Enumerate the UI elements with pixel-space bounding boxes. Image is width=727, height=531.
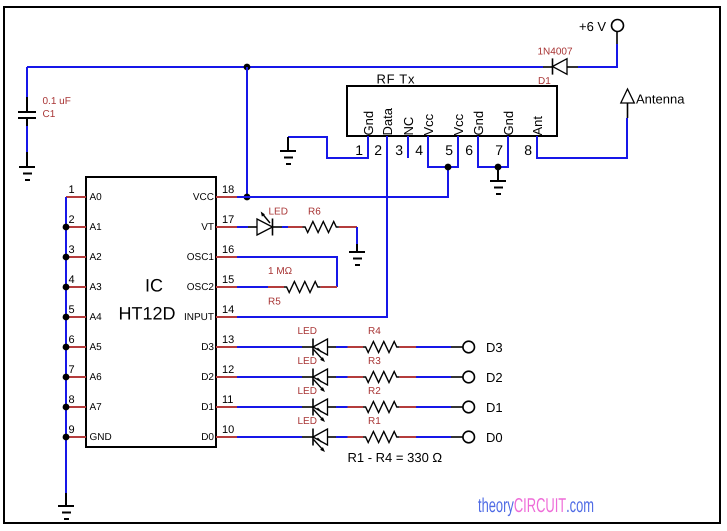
capacitor C1 <box>18 97 36 126</box>
terminal D1 <box>451 401 475 413</box>
svg-text:+6 V: +6 V <box>579 19 606 34</box>
svg-text:A7: A7 <box>90 402 103 413</box>
svg-text:LED: LED <box>298 416 317 427</box>
wire RF pins 4-5 Vcc link <box>428 136 458 167</box>
svg-text:A4: A4 <box>90 312 103 323</box>
wire LED to R3 <box>336 376 348 378</box>
logo theoryCIRCUIT.com <box>478 495 594 517</box>
wire OSC2 to R5 <box>237 286 268 288</box>
lead R6 left <box>288 226 303 228</box>
svg-text:GND: GND <box>90 432 112 443</box>
svg-text:LED: LED <box>298 326 317 337</box>
svg-text:INPUT: INPUT <box>184 312 214 323</box>
svg-text:A2: A2 <box>90 252 103 263</box>
wire R4 to terminal <box>416 346 451 348</box>
IC pin 17 stub <box>216 226 237 228</box>
svg-text:1: 1 <box>355 142 363 158</box>
svg-text:5: 5 <box>69 304 75 316</box>
wire address bus A0-GND <box>65 197 67 493</box>
wire D0 to LED <box>237 436 302 438</box>
lead R2 left <box>348 406 364 408</box>
resistor R5 <box>284 282 320 293</box>
svg-text:C1: C1 <box>43 109 56 120</box>
resistor R6 <box>303 222 339 233</box>
svg-text:OSC2: OSC2 <box>187 282 215 293</box>
svg-text:A0: A0 <box>90 192 103 203</box>
svg-text:14: 14 <box>222 304 234 316</box>
svg-text:Data: Data <box>380 107 395 135</box>
wire VT to LED <box>237 226 248 228</box>
svg-text:D1: D1 <box>201 402 214 413</box>
terminal D3 <box>451 341 475 353</box>
lead R5 left <box>268 286 284 288</box>
antenna <box>621 89 635 118</box>
LED on VT <box>248 212 282 236</box>
svg-text:13: 13 <box>222 334 234 346</box>
wire RF pin8 Ant to antenna <box>537 118 627 158</box>
ground below address bus <box>58 493 74 519</box>
lead R4 right <box>400 346 417 348</box>
junction dot bus pin 3 <box>63 254 70 261</box>
svg-text:RF Tx: RF Tx <box>377 72 416 87</box>
svg-text:5: 5 <box>445 142 453 158</box>
svg-text:10: 10 <box>222 424 234 436</box>
IC pin 13 stub <box>216 346 237 348</box>
svg-text:6: 6 <box>465 142 473 158</box>
svg-text:4: 4 <box>415 142 423 158</box>
svg-text:2: 2 <box>69 214 75 226</box>
LED on D3 <box>302 339 336 363</box>
svg-text:A3: A3 <box>90 282 103 293</box>
IC pin 3 stub <box>66 256 86 258</box>
RF Tx module U2 <box>347 86 557 136</box>
IC pin 15 stub <box>216 286 237 288</box>
wire C1 bottom lead <box>26 126 28 152</box>
junction dot bus pin 2 <box>63 224 70 231</box>
svg-text:1 MΩ: 1 MΩ <box>268 266 293 277</box>
IC pin 9 stub <box>66 436 86 438</box>
wire VCC top rail <box>27 66 543 68</box>
svg-text:18: 18 <box>222 184 234 196</box>
svg-text:theory: theory <box>478 495 514 517</box>
svg-text:R6: R6 <box>308 207 321 218</box>
junction dot Vcc link <box>445 164 452 171</box>
lead R1 right <box>400 436 417 438</box>
wire diode to +6V <box>578 44 617 67</box>
svg-text:A5: A5 <box>90 342 103 353</box>
wire OSC1 loop <box>237 257 337 287</box>
svg-text:OSC1: OSC1 <box>187 252 215 263</box>
svg-text:VCC: VCC <box>193 192 214 203</box>
svg-text:D3: D3 <box>201 342 214 353</box>
ground below RF pins 6-7 <box>490 167 506 194</box>
terminal +6V <box>612 20 624 45</box>
wire LED to R2 <box>336 406 348 408</box>
wire pin18 VCC horizontal <box>237 196 448 198</box>
svg-text:Antenna: Antenna <box>636 92 685 107</box>
svg-text:Vcc: Vcc <box>421 113 436 135</box>
svg-text:4: 4 <box>69 274 75 286</box>
wire RF pin2 Data to INPUT <box>237 136 387 317</box>
resistor R2 <box>363 402 399 413</box>
LED on D1 <box>302 399 336 423</box>
wire R3 to terminal <box>416 376 451 378</box>
lead R3 right <box>400 376 417 378</box>
IC pin 10 stub <box>216 436 237 438</box>
LED on D2 <box>302 369 336 393</box>
IC pin 11 stub <box>216 406 237 408</box>
ground left of RF Tx <box>280 137 296 164</box>
junction dot bus pin 7 <box>63 374 70 381</box>
junction dot at pin 18 row <box>244 194 251 201</box>
svg-text:7: 7 <box>495 142 503 158</box>
LED on D0 <box>302 429 336 453</box>
wire D3 to LED <box>237 346 302 348</box>
junction dot bus pin 9 <box>63 434 70 441</box>
svg-text:.com: .com <box>566 495 594 517</box>
IC pin 18 stub <box>216 196 237 198</box>
svg-text:Vcc: Vcc <box>451 113 466 135</box>
svg-text:Gnd: Gnd <box>501 111 516 136</box>
IC pin 6 stub <box>66 346 86 348</box>
junction dot bus pin 5 <box>63 314 70 321</box>
svg-text:R4: R4 <box>368 326 381 337</box>
IC pin 8 stub <box>66 406 86 408</box>
svg-text:11: 11 <box>222 394 233 406</box>
svg-text:17: 17 <box>222 214 234 226</box>
junction dot bus pin 8 <box>63 404 70 411</box>
wire RF pins 6-7 Gnd link <box>478 136 508 167</box>
wire RF pin3 NC stub <box>407 136 409 158</box>
svg-text:9: 9 <box>69 424 75 436</box>
wire R2 to terminal <box>416 406 451 408</box>
svg-text:LED: LED <box>298 386 317 397</box>
svg-text:D2: D2 <box>486 370 503 385</box>
svg-text:D0: D0 <box>486 430 503 445</box>
svg-text:2: 2 <box>374 142 382 158</box>
wire RF pin1 Gnd stub <box>288 136 368 158</box>
terminal D2 <box>451 371 475 383</box>
wire D1 to LED <box>237 406 302 408</box>
lead R1 left <box>348 436 364 438</box>
lead R6 right <box>339 226 357 228</box>
svg-text:D2: D2 <box>201 372 214 383</box>
svg-text:8: 8 <box>524 142 532 158</box>
resistor R4 <box>363 342 399 353</box>
svg-text:R1: R1 <box>368 416 381 427</box>
svg-text:8: 8 <box>69 394 75 406</box>
wire R6 to ground <box>356 227 358 244</box>
svg-text:A6: A6 <box>90 372 103 383</box>
wire R1 to terminal <box>416 436 451 438</box>
svg-text:Gnd: Gnd <box>361 111 376 136</box>
resistor R1 <box>363 432 399 443</box>
svg-text:1: 1 <box>69 184 75 196</box>
svg-text:3: 3 <box>395 142 403 158</box>
svg-text:LED: LED <box>269 207 288 218</box>
wire VCC drop to pin 18 <box>246 67 248 197</box>
svg-text:D3: D3 <box>486 340 503 355</box>
resistor R3 <box>363 372 399 383</box>
svg-text:R2: R2 <box>368 386 381 397</box>
diode D1 <box>543 58 578 74</box>
IC pin 1 stub <box>66 196 86 198</box>
svg-text:IC: IC <box>145 276 163 296</box>
wire LED to R4 <box>336 346 348 348</box>
svg-text:Gnd: Gnd <box>471 111 486 136</box>
lead R2 right <box>400 406 417 408</box>
junction dot bus pin 6 <box>63 344 70 351</box>
wire C1 top lead <box>26 67 28 97</box>
svg-text:NC: NC <box>401 117 416 136</box>
wire LED to R6 lead <box>282 226 288 228</box>
junction dot at VCC rail x=247 <box>244 64 251 71</box>
svg-text:16: 16 <box>222 244 234 256</box>
svg-text:3: 3 <box>69 244 75 256</box>
svg-text:D0: D0 <box>201 432 214 443</box>
junction dot bus pin 4 <box>63 284 70 291</box>
svg-text:R3: R3 <box>368 356 381 367</box>
svg-text:VT: VT <box>201 222 214 233</box>
lead R5 right <box>321 286 338 288</box>
IC pin 16 stub <box>216 256 237 258</box>
wire LED to R1 <box>336 436 348 438</box>
svg-text:HT12D: HT12D <box>118 304 175 324</box>
junction dot Gnd link <box>495 164 502 171</box>
svg-text:12: 12 <box>222 364 234 376</box>
IC U1 HT12D body <box>86 177 216 447</box>
svg-text:CIRCUIT: CIRCUIT <box>514 495 566 517</box>
lead R4 left <box>348 346 364 348</box>
svg-text:R1 - R4 = 330 Ω: R1 - R4 = 330 Ω <box>348 450 443 465</box>
IC pin 5 stub <box>66 316 86 318</box>
IC pin 14 stub <box>216 316 237 318</box>
svg-text:Ant: Ant <box>530 116 545 136</box>
IC pin 7 stub <box>66 376 86 378</box>
svg-text:0.1 uF: 0.1 uF <box>43 96 71 107</box>
svg-text:A1: A1 <box>90 222 103 233</box>
IC pin 2 stub <box>66 226 86 228</box>
svg-text:LED: LED <box>298 356 317 367</box>
ground below R6 <box>349 244 365 265</box>
wire D2 to LED <box>237 376 302 378</box>
svg-text:R5: R5 <box>268 297 281 308</box>
terminal D0 <box>451 431 475 443</box>
svg-text:D1: D1 <box>486 400 503 415</box>
svg-text:6: 6 <box>69 334 75 346</box>
ground below C1 <box>19 152 35 180</box>
IC pin 4 stub <box>66 286 86 288</box>
wire VCC riser to RF Vcc <box>447 167 449 198</box>
IC pin 12 stub <box>216 376 237 378</box>
svg-text:7: 7 <box>69 364 75 376</box>
lead R3 left <box>348 376 364 378</box>
svg-text:15: 15 <box>222 274 234 286</box>
svg-text:1N4007: 1N4007 <box>538 47 573 58</box>
